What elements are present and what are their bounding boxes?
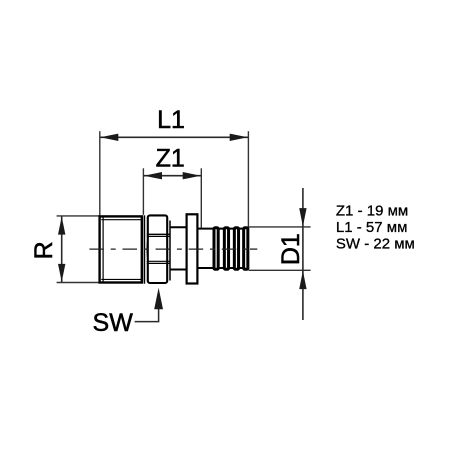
- svg-text:D1: D1: [277, 233, 305, 265]
- R arrow up: [58, 217, 65, 235]
- svg-text:SW - 22 мм: SW - 22 мм: [336, 235, 415, 252]
- svg-text:L1 - 57 мм: L1 - 57 мм: [336, 219, 408, 236]
- D1 arrow down: [299, 208, 306, 226]
- hex chamfer arc left: [147, 236, 148, 261]
- thread end washer line: [143, 215, 145, 283]
- neck between hex and flange top: [170, 226, 187, 228]
- svg-text:SW: SW: [93, 309, 134, 337]
- SW arrow: [154, 288, 163, 310]
- barb root cylinder bottom: [197, 267, 249, 269]
- D1 dimension line: [302, 188, 304, 320]
- svg-text:L1: L1: [157, 106, 185, 134]
- svg-text:Z1: Z1: [156, 145, 185, 173]
- barb root cylinder top: [197, 228, 249, 230]
- centerline: [89, 248, 249, 250]
- D1 extension line top: [249, 226, 311, 228]
- SW leader line: [135, 309, 159, 322]
- D1 arrow up: [299, 271, 306, 289]
- L1 arrow right: [230, 134, 248, 141]
- thread body (male thread section): [100, 216, 142, 282]
- hex inner right edge: [169, 221, 171, 281]
- Z1 arrow left: [144, 172, 162, 179]
- hex face line lower pair: [147, 260, 171, 262]
- Z1 extension line left: [142, 168, 144, 215]
- hex nut body: [148, 215, 167, 283]
- hex face line upper pair: [147, 233, 171, 235]
- L1 extension line right: [247, 131, 249, 227]
- barb rib 4: [244, 228, 248, 269]
- Z1 dimension line: [144, 175, 202, 177]
- D1 extension line bottom: [249, 269, 311, 271]
- flange collar: [187, 214, 198, 283]
- R arrow down: [58, 264, 65, 282]
- thread root line top: [101, 219, 142, 221]
- barb rib 1: [214, 228, 218, 269]
- Z1 arrow right: [183, 172, 201, 179]
- R extension line top: [57, 215, 100, 217]
- L1 dimension line: [100, 136, 248, 138]
- barb rib 3: [234, 228, 238, 269]
- L1 extension line left: [99, 131, 101, 215]
- barb rib 2: [224, 228, 228, 269]
- svg-text:Z1 - 19 мм: Z1 - 19 мм: [336, 202, 408, 219]
- centerline end dash: [250, 248, 257, 250]
- Z1 extension line right: [200, 168, 202, 228]
- thread root line bottom: [101, 278, 142, 280]
- neck between hex and flange bottom: [170, 269, 187, 271]
- svg-text:R: R: [30, 241, 58, 259]
- R dimension line: [61, 216, 63, 282]
- thread root line left: [102, 218, 104, 282]
- R extension line bottom: [57, 282, 100, 284]
- L1 arrow left: [100, 134, 118, 141]
